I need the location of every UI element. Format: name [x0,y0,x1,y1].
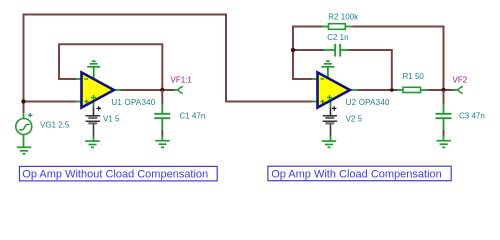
svg-text:C3 47n: C3 47n [459,112,485,121]
svg-text:C2 1n: C2 1n [327,33,348,42]
svg-text:V2 5: V2 5 [346,115,363,124]
svg-text:VF1:1: VF1:1 [171,75,193,84]
svg-text:R2 100k: R2 100k [328,12,359,21]
svg-text:VF2: VF2 [453,76,468,85]
svg-text:VG1 2.5: VG1 2.5 [40,121,70,130]
svg-text:R1 50: R1 50 [403,72,425,81]
svg-text:Op Amp Without Cload Compensat: Op Amp Without Cload Compensation [22,168,208,180]
svg-text:C1 47n: C1 47n [180,112,206,121]
svg-text:U1 OPA340: U1 OPA340 [111,98,155,107]
svg-text:U2 OPA340: U2 OPA340 [346,98,390,107]
svg-text:V1 5: V1 5 [103,115,120,124]
svg-text:Op Amp With Cload Compensation: Op Amp With Cload Compensation [271,168,442,180]
